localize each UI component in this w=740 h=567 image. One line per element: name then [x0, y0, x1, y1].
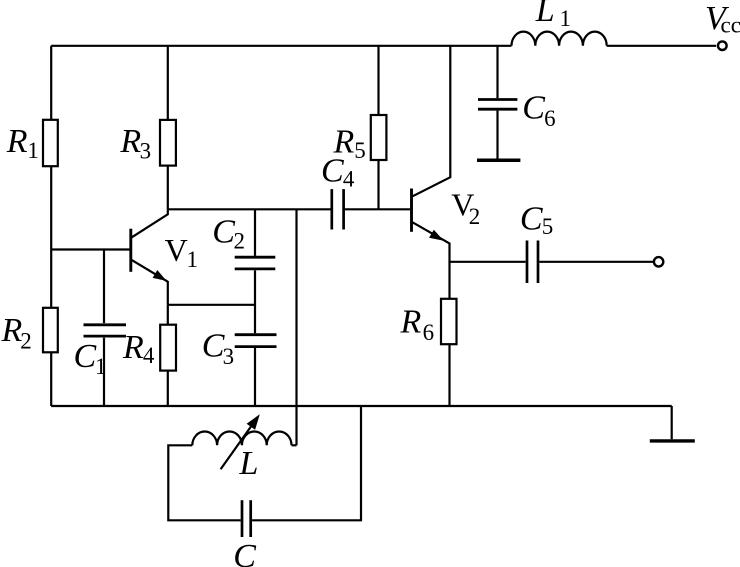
capacitor C2 [254, 209, 256, 256]
wire V1 collector rail [168, 208, 331, 210]
resistor R2 [43, 308, 58, 353]
svg-text:6: 6 [423, 320, 435, 345]
wire top rail [51, 45, 511, 47]
C6 ground bar [477, 159, 520, 163]
wire C4 to V2 base [345, 208, 410, 210]
output terminal [654, 257, 663, 266]
wire C5 to output terminal [539, 261, 653, 263]
wire left rail [50, 46, 52, 406]
svg-text:4: 4 [343, 167, 355, 192]
svg-text:L: L [239, 445, 259, 482]
capacitor C (tank) [241, 500, 244, 537]
capacitor C1 [103, 250, 105, 324]
svg-text:2: 2 [469, 204, 481, 229]
svg-text:C: C [202, 327, 225, 364]
svg-text:2: 2 [20, 329, 32, 354]
svg-text:C: C [233, 538, 256, 567]
svg-text:cc: cc [721, 13, 740, 38]
transistor V2 [412, 46, 451, 299]
svg-text:R: R [6, 123, 28, 160]
wire L1 to Vcc terminal [607, 45, 717, 47]
svg-text:R: R [400, 304, 422, 341]
svg-text:3: 3 [140, 139, 152, 164]
svg-text:1: 1 [27, 138, 39, 163]
variable-inductor arrow [221, 424, 253, 469]
capacitor C6 [496, 46, 498, 98]
resistor R3 [167, 46, 169, 120]
capacitor C4 [330, 189, 333, 229]
capacitor C5 [526, 241, 529, 284]
svg-text:6: 6 [544, 106, 556, 131]
svg-text:C: C [520, 200, 543, 237]
resistor R6 [441, 299, 457, 344]
svg-text:R: R [122, 329, 144, 366]
svg-text:2: 2 [234, 228, 246, 253]
svg-text:5: 5 [542, 214, 554, 239]
svg-text:R: R [333, 123, 355, 160]
svg-text:1: 1 [95, 354, 107, 379]
wire tank right side [252, 406, 361, 520]
svg-text:3: 3 [223, 344, 235, 369]
svg-text:R: R [1, 312, 23, 349]
svg-text:V: V [165, 232, 188, 268]
svg-text:R: R [119, 123, 141, 160]
wire feedback tap to tank [295, 209, 297, 445]
svg-text:5: 5 [354, 138, 366, 163]
wire bottom rail [51, 405, 672, 407]
resistor R5 [377, 46, 379, 115]
resistor R1 [43, 120, 58, 166]
wire V1 base [51, 248, 129, 250]
Vcc terminal [718, 41, 727, 50]
svg-text:1: 1 [560, 6, 572, 31]
inductor L (variable, tank) [192, 431, 291, 445]
svg-text:1: 1 [187, 247, 199, 272]
wire V2 emitter to C5 [450, 261, 526, 263]
transistor V1 [131, 209, 168, 304]
inductor L1 [512, 32, 607, 46]
svg-text:C: C [212, 214, 235, 251]
wire V1 emitter to C2/C3 node [168, 304, 255, 306]
svg-text:4: 4 [143, 343, 155, 368]
svg-text:L: L [535, 0, 555, 29]
svg-text:C: C [74, 338, 97, 375]
resistor R4 [167, 305, 169, 325]
svg-text:C: C [522, 90, 545, 127]
ground [671, 406, 673, 439]
capacitor C3 [235, 333, 277, 336]
wire tank left side [168, 445, 240, 520]
